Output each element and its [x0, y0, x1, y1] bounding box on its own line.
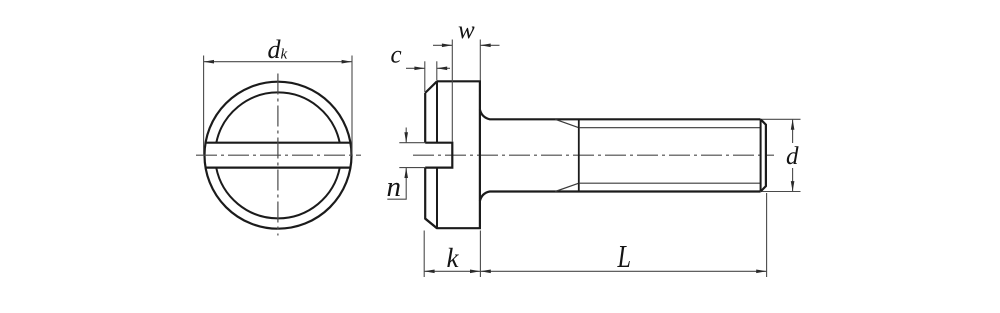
- thread minor diameter top line: [579, 127, 761, 129]
- c dimension tail right: [437, 67, 450, 69]
- shank bottom line: [480, 192, 761, 202]
- end face with chamfer corners: [761, 119, 766, 191]
- slot top chord: [206, 142, 351, 144]
- k extension line left: [423, 231, 425, 278]
- chamfer edge line upper: [436, 81, 438, 142]
- dk dimension line: [204, 61, 352, 63]
- L arrow right: [756, 270, 766, 274]
- n dimension tail bottom + leader: [387, 168, 406, 200]
- svg-text:w: w: [458, 17, 475, 44]
- d extension line top: [762, 118, 801, 120]
- L arrow left: [480, 270, 490, 274]
- n extension line bottom: [399, 167, 425, 169]
- w dimension tail right: [480, 44, 499, 46]
- c extension line right (chamfer end): [436, 61, 438, 80]
- w arrow right: [480, 44, 490, 48]
- w arrow left: [442, 44, 452, 48]
- c arrow left: [414, 67, 424, 71]
- svg-text:c: c: [391, 42, 402, 69]
- outer circle of head: [205, 82, 352, 229]
- head bottom chamfer: [425, 219, 437, 229]
- end chamfer start vertical: [760, 119, 762, 191]
- d dimension line upper segment: [792, 119, 794, 143]
- dk arrow right: [342, 60, 352, 64]
- svg-text:d: d: [786, 143, 799, 170]
- n dimension tail top: [405, 128, 407, 143]
- c dimension tail left: [406, 67, 425, 69]
- thread start vertical line: [578, 119, 580, 191]
- head outline: [425, 81, 480, 228]
- dk extension line left: [203, 56, 205, 155]
- L extension line right: [766, 193, 768, 277]
- d arrow top: [791, 119, 795, 129]
- thread minor diameter bottom line: [579, 182, 761, 184]
- thread runout diagonal bottom: [555, 183, 579, 191]
- L dimension line: [480, 270, 766, 272]
- n extension line top: [399, 142, 425, 144]
- d dimension line lower segment: [792, 168, 794, 192]
- k dimension line: [424, 270, 480, 272]
- inner chamfer circle (bottom arc): [216, 168, 340, 219]
- svg-text:n: n: [387, 172, 402, 203]
- n arrow top: [404, 132, 408, 142]
- k arrow right: [470, 270, 480, 274]
- slot bottom chord: [206, 167, 351, 169]
- c extension line left (head left face): [424, 61, 426, 92]
- svg-text:k: k: [447, 243, 460, 273]
- w extension line left (slot bottom): [451, 40, 453, 143]
- svg-text:L: L: [617, 238, 631, 274]
- horizontal centerline: [196, 154, 361, 156]
- slot notch in side view: [425, 143, 452, 168]
- w extension line right (head face): [479, 40, 481, 81]
- screw axis centerline: [413, 154, 774, 156]
- chamfer edge line lower: [436, 168, 438, 229]
- k / L shared extension line: [479, 231, 481, 278]
- vertical centerline: [277, 74, 279, 236]
- c arrow right: [437, 67, 447, 71]
- thread runout diagonal top: [555, 119, 579, 127]
- n arrow bottom: [404, 168, 408, 178]
- inner chamfer circle (top arc): [216, 92, 339, 142]
- d extension line bottom: [762, 191, 801, 193]
- dk extension line right: [351, 56, 353, 155]
- k arrow left: [424, 270, 434, 274]
- w dimension tail left: [433, 44, 452, 46]
- d arrow bottom: [791, 181, 795, 191]
- shank top line: [480, 110, 761, 120]
- dk arrow left: [204, 60, 214, 64]
